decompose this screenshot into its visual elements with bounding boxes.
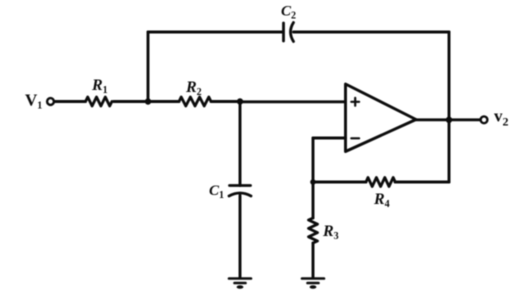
svg-text:R1: R1 xyxy=(91,77,108,96)
ground (R3) xyxy=(302,279,324,289)
op-amp plus sign xyxy=(351,98,359,106)
svg-text:C1: C1 xyxy=(209,183,224,201)
wire C1 to ground xyxy=(239,196,242,279)
wire minus node down xyxy=(312,138,315,182)
node A junction dot xyxy=(145,98,151,104)
svg-text:R2: R2 xyxy=(185,79,202,98)
op-amp U1 xyxy=(346,84,417,152)
wire op-amp minus input left xyxy=(313,137,346,140)
resistor R3 xyxy=(309,218,318,243)
resistor R4 xyxy=(366,178,395,187)
capacitor C1 xyxy=(229,186,251,197)
node D junction dot (output/feedback) xyxy=(446,117,452,123)
svg-text:C2: C2 xyxy=(281,4,296,22)
op-amp minus sign xyxy=(351,137,359,139)
resistor R2 xyxy=(179,97,211,106)
svg-text:R4: R4 xyxy=(373,191,390,210)
wire node B down to C1 xyxy=(239,102,242,186)
wire R2 to node B xyxy=(211,100,240,103)
capacitor C2 xyxy=(284,23,294,42)
node V2 output terminal xyxy=(481,116,488,123)
wire R3 to ground xyxy=(312,243,315,278)
node V1 input terminal xyxy=(47,98,54,105)
wire R1 to node A xyxy=(114,100,149,103)
wire node B to op-amp + input xyxy=(240,100,345,103)
svg-text:V1: V1 xyxy=(25,91,42,112)
wire R4 to feedback corner xyxy=(395,181,449,184)
wire top rail left segment to C2 xyxy=(148,31,283,34)
wire V1 to R1 xyxy=(55,100,86,103)
node C junction dot xyxy=(310,179,316,185)
svg-text:v2: v2 xyxy=(494,107,509,129)
resistor R1 xyxy=(86,97,112,106)
wire node A to R2 xyxy=(148,100,179,103)
node B junction dot xyxy=(237,98,243,104)
svg-text:R3: R3 xyxy=(322,223,339,242)
wire node C to R4 xyxy=(313,181,366,184)
wire node A up to top rail xyxy=(147,32,150,102)
ground (C1) xyxy=(229,279,251,289)
wire top rail C2 to right corner xyxy=(294,31,450,34)
wire right feedback vertical xyxy=(448,32,451,182)
wire node C down to R3 xyxy=(312,182,315,218)
wire op-amp output xyxy=(416,118,480,121)
